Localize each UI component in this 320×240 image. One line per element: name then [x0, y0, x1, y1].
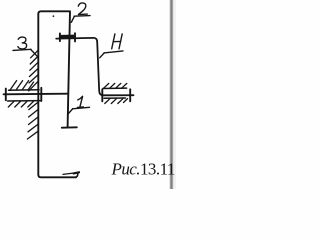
svg-text:Рис.13.11: Рис.13.11: [111, 160, 175, 179]
